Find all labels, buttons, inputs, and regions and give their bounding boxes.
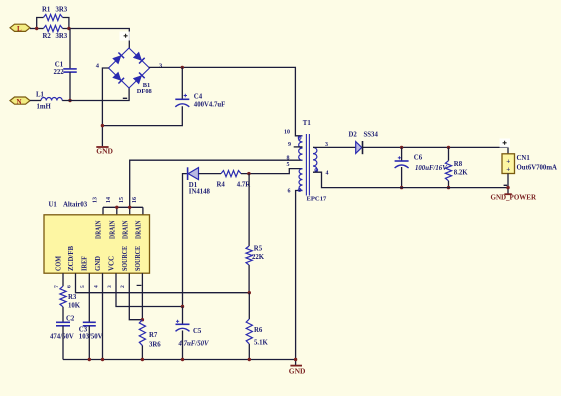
wire node to R2 left [37,28,44,30]
svg-text:VCC: VCC [108,256,116,271]
svg-text:474/50V: 474/50V [50,334,74,341]
resistor R8 [445,161,468,181]
U1 pin number 1 [137,284,142,286]
svg-text:Out6V700mA: Out6V700mA [517,165,557,172]
svg-text:10: 10 [284,129,290,135]
svg-text:ZCD/FB: ZCD/FB [67,246,75,271]
svg-text:2: 2 [120,285,126,288]
resistor R3 [60,286,81,309]
wire C3 to rail [88,326,90,360]
svg-text:3: 3 [107,285,113,288]
wire R3 to C2 [62,307,64,323]
wire N to L1 [30,100,41,102]
diode D2 [349,131,379,154]
wire COM pin to R3 [62,273,64,286]
wire drain pin13 stub [102,207,104,215]
svg-text:14: 14 [106,197,112,203]
svg-text:L1: L1 [36,92,45,99]
resistor R7 [139,320,161,349]
junction C1 on N line [68,99,71,102]
resistor R6 [246,319,268,346]
transformer aux polarity dot [298,189,301,192]
wire R4 to pin5 node [241,169,303,174]
svg-text:C6: C6 [414,154,423,161]
junction node L-R1-R2 [35,27,38,30]
transformer secondary polarity dot [315,169,318,172]
svg-text:C4: C4 [194,94,203,101]
transformer primary winding [299,136,303,160]
resistor R8 bottom lead [448,181,450,188]
svg-text:13: 13 [92,197,98,203]
bridge diode top-left [113,53,124,64]
svg-text:SOURCE: SOURCE [134,246,142,271]
svg-text:10K: 10K [68,302,81,309]
svg-text:D2: D2 [349,131,358,138]
svg-text:SOURCE: SOURCE [121,246,129,271]
junction gnd-C4 [101,124,104,127]
junction D1-VCC-C5 [181,305,184,308]
junction R4-R5 [247,172,250,175]
svg-text:15: 15 [119,197,125,203]
svg-text:3R3: 3R3 [56,7,68,14]
wire L to node [30,28,37,30]
junction CN1 gnd [506,186,509,189]
resistor R5 top lead [248,174,250,246]
wire drain pin14 stub [116,207,118,215]
capacitor C4 [175,94,225,109]
wire pin3 to D2 [313,146,356,148]
svg-text:4.7R: 4.7R [237,181,250,188]
svg-text:EPC17: EPC17 [307,195,327,202]
wire pin4 to output rail [313,172,508,187]
svg-text:C3: C3 [79,326,88,333]
svg-text:103/50V: 103/50V [79,334,103,341]
capacitor C6 top lead [401,147,403,161]
svg-text:R8: R8 [454,161,463,168]
wire SOURCE1 pin down [129,273,142,320]
svg-text:R1: R1 [42,7,51,14]
wire IREF pin to C3 [88,273,90,322]
wire L1 to bridge bottom [62,88,129,101]
svg-text:7: 7 [54,285,60,288]
svg-text:3R3: 3R3 [56,33,68,40]
junction sources join [141,318,144,321]
capacitor C6 [395,154,448,172]
capacitor C1 [54,62,77,77]
junction R8 bottom [447,186,450,189]
junction drain 14 [115,206,118,209]
bridge B1 diamond [109,48,150,88]
capacitor C5 top lead [182,307,184,325]
svg-text:R4: R4 [217,181,226,188]
junction C4 top [181,66,184,69]
svg-text:IN4148: IN4148 [189,189,211,196]
transformer pin9 stub [294,146,303,148]
capacitor C4 top lead [181,67,183,99]
wire CN1 pin2 down [507,174,509,194]
junction C6 top [400,146,403,149]
resistor R5 [246,245,265,265]
svg-text:DRAIN: DRAIN [108,221,116,240]
bridge minus mark [123,97,127,99]
wire gnd junction to C4 bottom [102,106,182,125]
transformer primary polarity dot [298,137,301,140]
svg-text:DRAIN: DRAIN [121,221,129,240]
svg-text:400V4.7uF: 400V4.7uF [194,101,226,108]
svg-text:GND_POWER: GND_POWER [491,194,537,202]
junction R7 rail [141,358,144,361]
svg-text:COM: COM [55,256,63,271]
svg-text:N: N [17,98,22,106]
op-amp U1 body [44,215,150,273]
ground GND left [96,146,113,155]
svg-text:C1: C1 [55,62,64,69]
svg-text:SS34: SS34 [364,131,379,138]
wire R7 to rail [141,346,143,360]
capacitor C5 [176,320,209,348]
svg-text:4: 4 [326,170,329,176]
svg-text:3R6: 3R6 [149,342,161,349]
resistor R6 top lead [248,293,250,319]
svg-text:+: + [506,165,510,173]
wire C5 to rail [182,331,184,360]
junction rail end [294,358,297,361]
capacitor C1 top lead [69,29,71,69]
wire SOURCE2 pin down [141,273,143,320]
resistor R2 [43,25,68,39]
transformer aux winding [299,169,303,191]
svg-text:C5: C5 [193,328,202,335]
wire GND pin to rail [102,273,104,359]
wire R1 branch right riser [63,18,69,29]
svg-text:16: 16 [132,197,138,203]
wire bridge right to transformer pin10 [150,67,303,135]
svg-text:5: 5 [287,162,290,168]
junction node R1-R2-C1 [67,27,70,30]
svg-text:5: 5 [80,285,86,288]
resistor R8 top lead [448,147,450,160]
svg-text:CN1: CN1 [517,155,531,162]
wire drain pin15 stub [129,207,131,215]
capacitor C1 bottom lead [69,72,71,100]
svg-text:22K: 22K [252,254,265,261]
svg-text:1mH: 1mH [37,104,52,111]
port L [10,24,30,33]
power port GND_POWER [491,194,537,202]
svg-text:T1: T1 [303,120,312,127]
junction GND pin rail [101,358,104,361]
junction C6 bottom [400,186,403,189]
svg-text:4: 4 [93,285,99,288]
svg-text:R5: R5 [254,245,263,252]
svg-text:L: L [17,25,22,33]
capacitor C2 [50,315,75,340]
diode D1 cathode to C5 node [183,174,187,307]
bridge diode bottom-right [133,73,144,84]
connector CN1 plus marker [500,139,511,148]
svg-text:R2: R2 [43,33,52,40]
wire drain pin16 stub [142,207,144,215]
svg-text:DF08: DF08 [137,88,152,95]
svg-text:GND: GND [289,367,306,376]
wire C2 to rail [62,326,64,360]
svg-text:R6: R6 [254,327,263,334]
svg-text:Altair03: Altair03 [63,202,88,209]
inductor L1 [36,92,62,111]
CN1 dash marker [504,184,508,186]
resistor R6 bottom lead [248,344,250,360]
svg-text:5.1K: 5.1K [254,339,268,346]
svg-text:DRAIN: DRAIN [95,221,103,240]
wire C6 to bottom rail [401,167,403,188]
transformer T1 core [306,134,309,196]
svg-text:222: 222 [54,69,65,76]
wire D1 to R4 [199,173,222,175]
svg-text:C2: C2 [66,315,75,322]
resistor R5 bottom lead [248,265,250,293]
connector CN1 [502,154,557,174]
port N [10,97,30,106]
resistor R4 [217,171,251,189]
transformer secondary winding [313,147,317,172]
svg-text:U1: U1 [49,202,58,209]
svg-text:100uF/16V: 100uF/16V [415,165,447,172]
svg-text:IREF: IREF [80,256,88,271]
resistor R1 [42,7,68,21]
junction C3 rail [88,358,91,361]
bridge diode top-right [133,52,144,63]
svg-text:GND: GND [96,146,113,155]
svg-text:9: 9 [288,142,291,148]
ground GND bottom [289,366,306,376]
junction R8 top [447,146,450,149]
wire bridge left corner to gnd junction [102,68,108,146]
svg-text:6: 6 [288,188,291,194]
junction R6 rail [248,358,251,361]
svg-text:6: 6 [66,285,72,288]
capacitor C3 [79,322,103,340]
junction drain 15 [128,206,131,209]
wire VCC pin to C5 node [116,273,183,306]
svg-text:8: 8 [287,155,290,161]
svg-text:DRAIN: DRAIN [135,221,143,240]
junction feedback node [248,291,251,294]
wire ZCD/FB pin to feedback node [76,273,250,293]
bridge diode bottom-left [113,72,124,83]
wire aux pin6 to ground [296,191,303,366]
wire R1 branch left riser [37,18,44,29]
svg-text:R7: R7 [149,332,158,339]
bridge plus marker [120,32,131,41]
diode D1 [188,167,211,195]
wire D2 to CN1 [363,147,509,153]
svg-text:8.2K: 8.2K [454,170,468,177]
junction C5 rail [181,358,184,361]
svg-text:R3: R3 [68,294,77,301]
ground rail bottom [63,359,296,361]
wire drain tie [103,206,143,208]
svg-text:GND: GND [94,256,102,271]
wire R2 right to bridge top [63,29,130,49]
wire drain bus to transformer pin8 [130,160,303,207]
